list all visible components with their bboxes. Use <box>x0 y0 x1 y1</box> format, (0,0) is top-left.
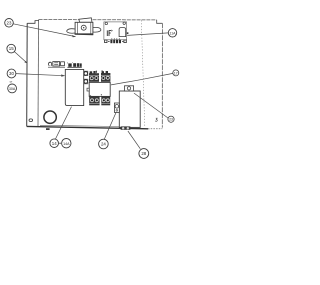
capacitor bracket 23 : left ear <box>67 29 75 34</box>
capacitor bracket 23 : right flange line <box>90 22 92 34</box>
relay 28 : top tab <box>125 86 134 91</box>
panel top-left notch <box>27 20 38 24</box>
leader 17 <box>111 73 173 85</box>
control board 11A : degree dot <box>111 30 112 31</box>
contactor : wire stub left <box>95 71 97 73</box>
relay 28 : bottom terminal <box>121 126 131 129</box>
transformer 14 : side terminal lower <box>84 79 88 84</box>
panel fold line left <box>37 21 40 127</box>
callout 28 <box>139 149 149 159</box>
contactor : bottom terminals left <box>89 96 99 105</box>
fuse block : box 2 <box>61 62 65 66</box>
transformer 14 : body <box>65 69 83 105</box>
transformer 14 : top terminal row <box>67 66 81 68</box>
callout 24 <box>99 139 109 149</box>
transformer 14 : side terminal upper <box>84 71 88 75</box>
panel right edge <box>161 23 163 127</box>
panel hole grommet <box>44 111 56 123</box>
small mark 3 on panel <box>155 118 157 121</box>
contactor : side tab <box>87 88 89 91</box>
capacitor bracket 23 : bottom band <box>75 33 94 35</box>
panel top-right step <box>157 20 163 23</box>
svg-text:14A: 14A <box>63 142 70 146</box>
leader 14 <box>55 107 72 141</box>
relay 28 : body <box>119 91 140 127</box>
control board 11A : plate <box>104 22 127 40</box>
leader 23 right <box>134 93 168 118</box>
panel slot oval <box>29 119 33 122</box>
capacitor bracket 23 : left flange line <box>77 22 79 34</box>
contactor : bottom terminals right <box>101 96 110 105</box>
callout 30A <box>8 84 17 93</box>
panel foot tab <box>46 128 50 130</box>
svg-text:24: 24 <box>101 142 106 147</box>
leader 30 <box>16 74 65 76</box>
control board 11A : screw top-right <box>123 22 125 24</box>
panel bottom fold <box>40 125 120 126</box>
panel left outer edge <box>26 23 29 126</box>
svg-text:30A: 30A <box>9 87 16 91</box>
svg-text:28: 28 <box>141 151 146 156</box>
capacitor bracket 23 : center dot <box>83 27 84 28</box>
fuse block : box 1 <box>53 62 60 66</box>
control board 11A : F glyph bar <box>106 30 108 36</box>
svg-text:14: 14 <box>52 141 57 146</box>
relay 28 : left tab <box>114 103 119 112</box>
callout 23 right <box>168 116 174 122</box>
svg-text:23: 23 <box>169 118 173 122</box>
leader 11A <box>127 33 168 36</box>
control board 11A : right edge lug <box>127 32 129 34</box>
callout 14A <box>62 139 71 148</box>
contactor : top terminals right <box>101 73 110 82</box>
leader 15 <box>14 52 27 64</box>
leader 23 left <box>13 24 75 37</box>
callout 17 <box>173 70 179 76</box>
contactor : body marks <box>90 95 92 96</box>
callout 14 <box>50 139 59 148</box>
contactor : wire stub right <box>101 70 103 72</box>
callout 30 <box>7 69 16 78</box>
control board 11A : bottom terminal right <box>124 40 126 43</box>
panel bottom edge right dashed <box>148 128 162 130</box>
control board 11A : relay can <box>119 28 126 37</box>
panel top edge <box>39 19 157 21</box>
control board 11A : F glyph <box>109 31 111 36</box>
svg-text:11A: 11A <box>170 31 177 35</box>
contactor : top terminals left <box>89 73 99 82</box>
dash between 14 and 14A <box>59 142 61 144</box>
callout 23 left <box>5 19 14 28</box>
svg-text:23: 23 <box>7 20 12 25</box>
capacitor bracket 23 : right ear <box>93 27 101 32</box>
svg-text:17: 17 <box>174 71 178 75</box>
fuse block : base line <box>48 66 65 68</box>
capacitor bracket 23 : plate <box>75 22 93 34</box>
leader 28 <box>128 131 140 149</box>
svg-text:15: 15 <box>9 46 14 51</box>
contactor : body <box>89 82 110 96</box>
panel bottom edge <box>27 126 148 128</box>
panel fold line right <box>141 20 145 127</box>
control board 11A : bottom terminal left <box>105 40 107 43</box>
control board 11A : bottom bars <box>108 40 123 42</box>
svg-text:or: or <box>10 79 13 83</box>
svg-text:30: 30 <box>9 71 14 76</box>
capacitor bracket 23 : center hole <box>81 25 86 30</box>
callout 11A <box>168 29 176 37</box>
callout 15 <box>7 44 16 53</box>
control board 11A : screw top-left <box>105 22 107 24</box>
capacitor bracket 23 : top tab <box>79 18 92 23</box>
leader 24 <box>104 113 116 140</box>
fuse block : squiggle <box>48 62 51 66</box>
